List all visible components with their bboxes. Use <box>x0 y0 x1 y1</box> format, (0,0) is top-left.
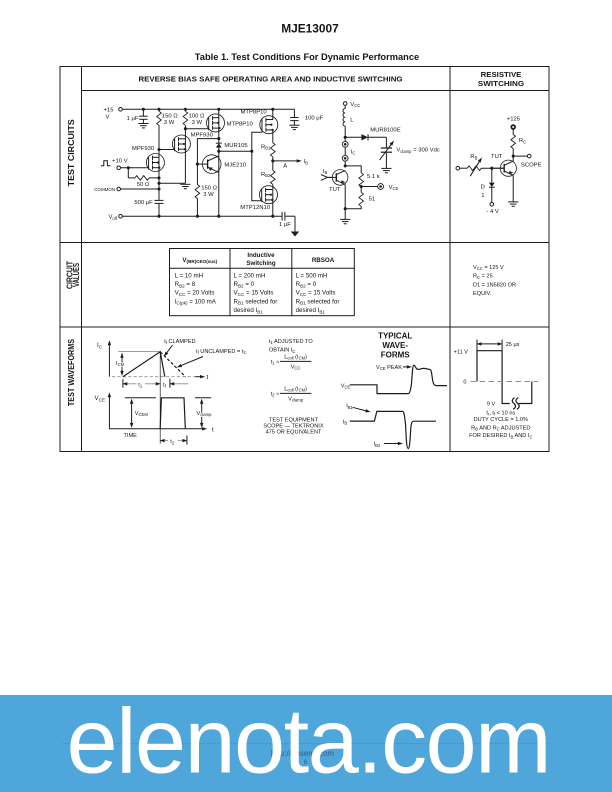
svg-text:IC: IC <box>97 342 103 349</box>
svg-text:1: 1 <box>481 193 484 199</box>
svg-text:MTP8P10: MTP8P10 <box>227 121 254 127</box>
pulse rise tick extension <box>476 340 478 351</box>
VCE vertical axis <box>108 392 111 429</box>
junction collector node <box>344 164 347 167</box>
label tf CLAMPED with arrow <box>162 339 195 358</box>
elenota banner <box>0 695 612 792</box>
svg-text:+125: +125 <box>507 116 521 122</box>
svg-text:RB AND RC ADJUSTED: RB AND RC ADJUSTED <box>471 425 530 431</box>
svg-text:desired IB1: desired IB1 <box>296 307 326 314</box>
wire node A arrow IB <box>273 159 302 162</box>
svg-text:V: V <box>106 114 110 120</box>
svg-text:RB2 = 8: RB2 = 8 <box>175 281 196 288</box>
wire COMMON <box>121 188 160 190</box>
terminal -4V <box>490 203 494 207</box>
ICM measure arrow <box>120 353 123 376</box>
node junction gate wire on 150 line <box>157 148 160 151</box>
svg-text:VCE PEAK: VCE PEAK <box>376 365 402 371</box>
svg-text:OBTAIN IC: OBTAIN IC <box>269 348 296 354</box>
svg-text:A: A <box>283 164 287 170</box>
svg-text:1 μF: 1 μF <box>279 222 291 228</box>
long vertical from IC peak to VCE region <box>159 352 161 444</box>
svg-text:Inductive: Inductive <box>247 252 275 259</box>
VCEM reference line <box>125 397 156 399</box>
arrow IB into base <box>321 175 333 181</box>
svg-text:MJE13007: MJE13007 <box>281 21 339 35</box>
svg-text:MUR8100E: MUR8100E <box>370 128 401 134</box>
svg-text:IC(pk) = 100 mA: IC(pk) = 100 mA <box>175 298 217 305</box>
VCEM measure arrow <box>130 399 133 428</box>
svg-text:Vclamp = 300 Vdc: Vclamp = 300 Vdc <box>396 148 439 154</box>
25us dimension arrows <box>476 342 502 345</box>
ground TUT emitter <box>340 219 350 223</box>
wire top +15V rail <box>122 108 294 110</box>
label +15 V <box>104 107 115 120</box>
wire VCC to L <box>344 105 346 108</box>
svg-text:RC = 25: RC = 25 <box>473 274 493 280</box>
svg-text:t1 ADJUSTED TO: t1 ADJUSTED TO <box>269 339 313 345</box>
resistor RC <box>511 135 516 149</box>
svg-text:50 Ω: 50 Ω <box>137 182 150 188</box>
svg-text:MPF930: MPF930 <box>132 146 155 152</box>
svg-text:RB2 = 0: RB2 = 0 <box>296 281 317 288</box>
header RESISTIVE SWITCHING <box>478 70 524 88</box>
IC vertical axis <box>108 340 111 377</box>
svg-text:25 μs: 25 μs <box>506 342 520 348</box>
junction top rail at 1uF <box>142 108 145 111</box>
svg-text:Table 1. Test Conditions For D: Table 1. Test Conditions For Dynamic Per… <box>195 52 419 62</box>
note test equipment <box>263 417 323 435</box>
current probe IC upper <box>342 141 348 147</box>
mosfet MPF930 center <box>172 135 190 153</box>
svg-text:+10 V: +10 V <box>112 159 128 165</box>
junction 100ohm/gate node <box>184 127 187 130</box>
wire +10V to gate <box>121 167 149 169</box>
label D 1 <box>481 184 485 199</box>
svg-text:0: 0 <box>463 380 466 386</box>
svg-text:Lcoil (ICM): Lcoil (ICM) <box>284 354 307 360</box>
svg-text:5.1 k: 5.1 k <box>367 174 380 180</box>
junction VCE tap <box>360 185 363 188</box>
svg-text:t: t <box>212 426 214 433</box>
wire MPF930 lower source column <box>158 125 160 216</box>
t2 dimension arrows <box>160 439 188 442</box>
terminal COMMON <box>117 187 121 191</box>
svg-text:DUTY CYCLE = 1.0%: DUTY CYCLE = 1.0% <box>474 417 528 423</box>
svg-text:TEST CIRCUITS: TEST CIRCUITS <box>66 119 76 186</box>
label IB2 with arrow <box>374 442 403 448</box>
svg-text:RB: RB <box>470 154 477 160</box>
junction ground wire <box>157 182 160 185</box>
svg-text:VCC = 15 Volts: VCC = 15 Volts <box>296 290 336 297</box>
svg-text:MTP12N10: MTP12N10 <box>240 205 271 211</box>
wire Voff rail <box>122 215 282 217</box>
wire to RC <box>512 129 514 135</box>
svg-text:MTP8P10: MTP8P10 <box>241 109 268 115</box>
svg-text:3 W: 3 W <box>164 120 175 126</box>
svg-text:VALUES: VALUES <box>71 263 81 287</box>
label VCE PEAK with arrow <box>376 365 412 371</box>
IC unclamped dashed decay <box>160 352 185 377</box>
mosfet MPF930 lower-left <box>146 154 164 172</box>
resistor RB variable <box>467 156 483 176</box>
mosfet MTP12N10 <box>260 186 278 204</box>
svg-text:51: 51 <box>369 196 376 202</box>
terminal +15V <box>119 108 123 112</box>
junction rail at MTP8P10 left <box>217 108 220 111</box>
label 150 ohm 3W lower <box>201 185 217 198</box>
ground under 1uF <box>138 124 148 128</box>
junction collector node <box>512 155 515 158</box>
svg-text:Vclamp: Vclamp <box>197 411 213 417</box>
values column 1 <box>175 272 217 305</box>
svg-text:elenota.com: elenota.com <box>67 691 551 792</box>
wire RC to collector node <box>512 149 514 162</box>
junction 50 ohm at column <box>157 176 160 179</box>
wire branch down to 50 ohm <box>127 168 129 178</box>
capacitor 1uF on Voff rail <box>282 212 295 232</box>
inductor L <box>343 109 345 127</box>
svg-text:VCC: VCC <box>350 102 360 108</box>
t2 dimension ticks <box>186 436 188 445</box>
label 150 ohm 3W <box>162 113 178 126</box>
svg-text:VCE: VCE <box>341 383 351 389</box>
svg-text:- 4 V: - 4 V <box>486 209 499 215</box>
svg-text:MJE210: MJE210 <box>224 163 246 169</box>
wire collector node to 5.1k <box>345 166 361 173</box>
junction MJE210 base <box>196 163 199 166</box>
capacitor 500uF <box>155 200 164 203</box>
svg-text:t1: t1 <box>138 382 143 388</box>
svg-text:TUT: TUT <box>491 154 503 160</box>
svg-text:IB: IB <box>304 159 309 165</box>
svg-text:V(BR)CEO(sus): V(BR)CEO(sus) <box>182 257 217 264</box>
label IB1 with arrow <box>346 404 371 414</box>
Vclamp variable clamp symbol <box>380 137 396 168</box>
formula t1 <box>271 354 312 370</box>
inner values table frame <box>170 249 355 316</box>
wire input to RB <box>460 167 468 169</box>
ground under 100uF <box>289 125 299 129</box>
wire to VCE probe <box>361 186 378 188</box>
svg-text:L: L <box>350 117 354 123</box>
svg-text:100 μF: 100 μF <box>305 116 324 122</box>
wire drain-source run of center MPF930 down to ground <box>184 129 186 184</box>
svg-text:VCEM: VCEM <box>135 411 149 417</box>
svg-text:TEST WAVEFORMS: TEST WAVEFORMS <box>66 339 76 406</box>
pulse waveform <box>477 351 532 404</box>
junction top rail at 100 <box>184 108 187 111</box>
svg-text:RBSOA: RBSOA <box>312 257 335 264</box>
label tf UNCLAMPED = t2 with arrow <box>176 349 246 369</box>
svg-text:IC: IC <box>351 149 356 155</box>
svg-text:IB: IB <box>323 169 328 175</box>
terminal +10V input <box>117 166 121 170</box>
svg-text:VCC: VCC <box>291 364 301 370</box>
label 100 ohm 3W <box>189 113 205 126</box>
svg-text:Switching: Switching <box>246 260 275 267</box>
Vclamp measure arrow <box>200 399 203 428</box>
transistor MJE210 <box>197 155 221 174</box>
svg-text:tf: tf <box>163 382 167 388</box>
svg-text:D: D <box>481 184 485 190</box>
svg-text:t2 ≈: t2 ≈ <box>271 391 280 397</box>
transistor TUT <box>328 170 348 186</box>
pulse glyph input <box>101 161 111 166</box>
resistor 50 ohm <box>128 176 159 181</box>
ground center MPF930 source <box>180 184 190 188</box>
formula t2 <box>271 386 312 402</box>
svg-text:IB1: IB1 <box>346 404 353 410</box>
svg-text:D1 = 1N5820 OR: D1 = 1N5820 OR <box>473 282 516 288</box>
resistor 150 ohm 3W upper <box>157 109 162 125</box>
svg-text:+11 V: +11 V <box>454 350 469 356</box>
table row line 2 <box>60 326 549 328</box>
svg-text:L = 200 mH: L = 200 mH <box>234 272 266 279</box>
wire MUR105 cathode-node down through MJE210 to Voff rail <box>218 151 220 216</box>
ground under Vclamp <box>381 168 391 172</box>
svg-text:TYPICAL: TYPICAL <box>378 332 412 341</box>
svg-text:L = 10 mH: L = 10 mH <box>175 272 204 279</box>
capacitor 1uF input <box>139 109 147 123</box>
diode MUR8100E <box>345 134 386 140</box>
junction rail at right MTP8P10 <box>271 108 274 111</box>
wire left MTP8P10 drain to rail <box>218 109 220 138</box>
wire RB to base <box>481 167 504 169</box>
svg-text:3 W: 3 W <box>192 120 203 126</box>
svg-text:VCC = 125 V: VCC = 125 V <box>473 265 504 271</box>
svg-text:COMMON: COMMON <box>94 187 115 192</box>
wire gate center MPF930 <box>159 149 175 151</box>
ground triangle right <box>291 232 299 237</box>
resistor 100 ohm 3W <box>183 109 188 128</box>
svg-text:desired IB1: desired IB1 <box>234 307 264 314</box>
junction node under MUR105 <box>217 150 220 153</box>
wire node to gate link <box>219 150 252 152</box>
mosfet MTP8P10 left <box>207 114 225 132</box>
inner table header underline <box>170 267 355 269</box>
wire base node to D1 <box>491 168 493 182</box>
IC time axis dashed <box>112 376 196 378</box>
terminal VCC <box>343 102 347 106</box>
wire L to node <box>344 126 346 166</box>
junction Voff rail dots <box>157 215 274 218</box>
diode MUR105 <box>216 139 222 152</box>
svg-text:MPF930: MPF930 <box>191 132 214 138</box>
title TYPICAL WAVE- FORMS <box>378 332 412 360</box>
junction diode node <box>344 136 347 139</box>
resistor 5.1k <box>359 173 364 187</box>
wire corner to MJE210 base column <box>197 139 218 217</box>
peak reference line gray <box>118 351 160 353</box>
wire RB1 to node A <box>272 157 274 171</box>
current probe IC lower <box>342 155 348 161</box>
row label CIRCUIT VALUES <box>65 260 81 289</box>
IC ramp waveform <box>123 352 165 377</box>
values resistive column <box>473 265 516 297</box>
junction COMMON at column <box>157 187 160 190</box>
note t1 adjusted <box>269 339 313 354</box>
capacitor 100uF <box>290 109 298 125</box>
VCE baseline axis <box>109 427 207 430</box>
resistor 150 ohm 3W lower <box>195 185 200 199</box>
break symbol on bottom line <box>510 398 519 410</box>
IC time axis arrow <box>196 375 206 378</box>
svg-text:VCE: VCE <box>389 185 399 191</box>
svg-text:FOR DESIRED IB AND IC: FOR DESIRED IB AND IC <box>469 433 532 439</box>
svg-text:t2: t2 <box>170 439 175 445</box>
svg-text:475 OR EQUIVALENT: 475 OR EQUIVALENT <box>266 429 322 435</box>
footer rule line <box>62 743 550 745</box>
table vertical line resistive column <box>449 67 451 452</box>
values column 3 <box>296 272 340 314</box>
IB typical trace <box>350 411 436 448</box>
svg-text:t: t <box>207 374 209 381</box>
svg-text:RC: RC <box>519 138 526 144</box>
wire 51 to emitter node <box>345 206 361 208</box>
wire 5.1k to 51 <box>360 187 362 193</box>
terminal +125 <box>511 125 515 129</box>
values column 2 <box>234 272 278 314</box>
table vertical line label column <box>81 67 83 452</box>
svg-text:SWITCHING: SWITCHING <box>478 79 524 88</box>
junction +10V branch <box>127 166 130 169</box>
wire to SCOPE <box>513 155 527 157</box>
svg-text:RB2: RB2 <box>261 172 271 178</box>
mosfet MTP8P10 right <box>260 116 278 134</box>
svg-text:RB2 = 0: RB2 = 0 <box>234 281 255 288</box>
svg-text:VCC = 20 Volts: VCC = 20 Volts <box>175 290 215 297</box>
transistor TUT resistive <box>494 160 517 176</box>
table row line 1 <box>60 242 549 244</box>
svg-text:Voff: Voff <box>108 215 117 221</box>
svg-text:RB1 selected for: RB1 selected for <box>296 298 340 305</box>
svg-text:MUR105: MUR105 <box>224 143 248 149</box>
svg-text:SCOPE: SCOPE <box>521 163 542 169</box>
VCE typical trace <box>350 365 447 393</box>
wire right MTP8P10 drain to rail <box>272 109 274 120</box>
svg-text:FORMS: FORMS <box>381 350 411 359</box>
svg-text:TIME: TIME <box>124 433 138 439</box>
resistor 51 <box>359 192 364 206</box>
svg-text:500 μF: 500 μF <box>134 200 153 206</box>
diode D1 <box>489 183 495 203</box>
svg-text:3 W: 3 W <box>203 192 214 198</box>
inner header Inductive Switching <box>246 252 275 267</box>
resistor RB2 <box>271 170 276 184</box>
svg-text:1 μF: 1 μF <box>127 116 139 122</box>
wire right stack column upper <box>272 130 274 143</box>
probe VCE <box>378 184 384 190</box>
junction gate link <box>250 150 253 153</box>
notes right cell <box>469 410 532 439</box>
svg-text:Lcoil (ICM): Lcoil (ICM) <box>284 386 307 392</box>
VCE pulse waveform <box>160 398 185 429</box>
node A junction <box>271 159 274 162</box>
svg-text:150 Ω: 150 Ω <box>201 185 217 191</box>
svg-text:t1 ≈: t1 ≈ <box>271 359 280 365</box>
svg-text:100 Ω: 100 Ω <box>189 113 205 119</box>
table outer border <box>60 67 549 452</box>
wire gate of left MTP8P10 to 100ohm node <box>185 128 209 130</box>
svg-text:EQUIV.: EQUIV. <box>473 291 492 297</box>
zero dashed line <box>471 381 539 383</box>
svg-text:+15: +15 <box>104 107 115 113</box>
pulse fall tick extension <box>501 340 503 351</box>
t1 dimension arrows <box>122 382 161 385</box>
wire to ground stub <box>159 182 185 184</box>
wire emitter down <box>344 185 346 220</box>
svg-text:tf UNCLAMPED = t2: tf UNCLAMPED = t2 <box>196 349 246 355</box>
junction MTP8P10 source / MUR105 node <box>217 137 220 140</box>
inner table divider 2 <box>291 249 293 316</box>
t1 tf dimension ticks <box>123 379 170 388</box>
terminal Voff <box>119 214 123 218</box>
svg-text:Vclamp: Vclamp <box>288 396 304 402</box>
resistor RB1 <box>271 143 276 157</box>
svg-text:RESISTIVE: RESISTIVE <box>481 70 522 79</box>
junction emitter node <box>344 207 347 210</box>
svg-text:VCC = 15 Volts: VCC = 15 Volts <box>234 290 274 297</box>
svg-text:150 Ω: 150 Ω <box>162 113 178 119</box>
svg-text:IB: IB <box>343 419 348 425</box>
svg-text:RB1: RB1 <box>261 144 271 150</box>
svg-text:9 V: 9 V <box>487 401 496 407</box>
terminal SCOPE <box>527 154 531 158</box>
svg-text:ICM: ICM <box>116 361 125 367</box>
junction base node <box>490 167 493 170</box>
table header underline <box>82 90 550 92</box>
Vclamp reference line <box>195 397 211 399</box>
svg-text:WAVE-: WAVE- <box>382 341 408 350</box>
svg-text:tf CLAMPED: tf CLAMPED <box>164 339 195 345</box>
svg-text:L = 500 mH: L = 500 mH <box>296 272 328 279</box>
svg-text:REVERSE BIAS SAFE OPERATING AR: REVERSE BIAS SAFE OPERATING AREA AND IND… <box>139 75 403 84</box>
svg-text:tr, tf < 10 ns: tr, tf < 10 ns <box>486 410 515 416</box>
svg-text:RB1 selected for: RB1 selected for <box>234 298 278 305</box>
wire gate link column <box>252 132 262 201</box>
svg-text:TUT: TUT <box>329 187 341 193</box>
tf outside arrow <box>169 382 188 385</box>
wire RB2 to MTP12N10 <box>272 184 274 216</box>
svg-text:IB2: IB2 <box>374 442 381 448</box>
inner table divider 1 <box>229 249 231 316</box>
svg-text:VCE: VCE <box>95 395 106 402</box>
terminal base input <box>456 166 460 170</box>
junction top rail at 150 <box>157 108 160 111</box>
wire emitter down resistive <box>512 175 514 202</box>
ground TUT resistive <box>508 202 518 206</box>
